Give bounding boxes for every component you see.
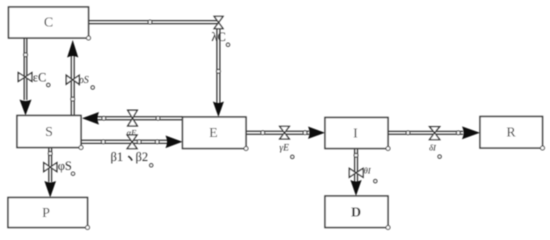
- valve lambda-C: [214, 16, 223, 28]
- svg-text:ρS: ρS: [78, 75, 89, 86]
- valve epsilon-C: [18, 73, 32, 82]
- joint on C-S pipe: [24, 53, 28, 57]
- svg-text:δI: δI: [429, 142, 437, 152]
- svg-text:β1: β1: [111, 150, 124, 164]
- wire S to E bottom pipe (beta flow): [81, 140, 168, 143]
- svg-text:C: C: [44, 16, 53, 31]
- svg-text:λC: λC: [211, 30, 225, 44]
- svg-text:D: D: [351, 206, 361, 221]
- valve alpha-E: [128, 110, 138, 126]
- label beta1 beta2: [111, 150, 149, 164]
- valve gamma-E: [280, 126, 290, 139]
- wire I to R pipe (delta flow): [388, 131, 463, 134]
- arrowhead into P top: [44, 181, 56, 198]
- joint on S-C pipe: [71, 97, 75, 101]
- svg-text:E: E: [209, 126, 218, 141]
- joints on E-I pipe: [261, 131, 265, 135]
- joints on S-E bottom pipe: [101, 140, 105, 144]
- joint on I-D pipe: [354, 153, 358, 157]
- stock R: [480, 117, 545, 151]
- svg-text:θI: θI: [364, 166, 372, 176]
- svg-text:εC: εC: [33, 71, 47, 85]
- joints on E-S top pipe: [102, 116, 106, 120]
- joint on lambda-E pipe: [217, 69, 221, 73]
- wire E to I pipe (gamma flow): [246, 131, 309, 134]
- wire S down to P (phi flow): [49, 148, 52, 183]
- svg-text:P: P: [42, 206, 50, 221]
- valve rho-S: [66, 75, 79, 84]
- arrowhead into D top: [350, 180, 361, 196]
- stock S: [17, 116, 83, 150]
- stock I: [325, 118, 390, 151]
- stock E: [183, 117, 249, 151]
- small circle near beta labels: [150, 164, 153, 167]
- wire S up to C (rho pipe): [71, 55, 74, 116]
- svg-text:R: R: [506, 126, 516, 141]
- small circle near delta-I: [438, 155, 441, 158]
- small circle near rho-S: [91, 86, 94, 89]
- joint on C-lambda pipe: [148, 20, 152, 24]
- stock C: [9, 7, 91, 40]
- wire E to S top pipe (alpha flow): [96, 117, 183, 120]
- wire lambda-valve down to E (vertical pipe): [217, 27, 220, 103]
- arrowhead into I left (gamma flow): [308, 127, 325, 139]
- wire I down to D (theta flow): [355, 149, 358, 183]
- valve beta: [127, 135, 137, 149]
- small circle near theta-I: [374, 179, 377, 182]
- svg-text:S: S: [45, 125, 53, 140]
- small circle near phi-S: [71, 172, 74, 175]
- valve phi-S: [44, 163, 57, 172]
- joint on S-P pipe: [48, 152, 52, 156]
- svg-text:φS: φS: [58, 159, 72, 173]
- valve theta-I: [349, 168, 363, 177]
- small circle near gamma-E: [291, 155, 294, 158]
- valve delta-I: [430, 127, 440, 140]
- arrowhead into E left (beta flow): [166, 136, 183, 149]
- arrowhead into S top: [20, 100, 32, 116]
- joints on I-R pipe: [406, 131, 410, 135]
- svg-text:γE: γE: [279, 144, 289, 154]
- arrowhead into R left (delta flow): [462, 126, 480, 139]
- wire C to lambda-valve (horizontal pipe): [89, 21, 220, 24]
- arrowhead into E top: [213, 102, 224, 118]
- arrowhead into C bottom: [67, 40, 78, 58]
- stock P: [8, 198, 90, 230]
- arrowhead into S right (alpha flow): [82, 112, 99, 125]
- svg-text:I: I: [353, 127, 358, 142]
- small circle near lambda-C: [226, 43, 229, 46]
- wire C down to S (epsilon pipe): [24, 38, 27, 100]
- stock D: [325, 196, 390, 230]
- small circle near epsilon-C: [47, 83, 50, 86]
- svg-text:β2: β2: [136, 150, 149, 164]
